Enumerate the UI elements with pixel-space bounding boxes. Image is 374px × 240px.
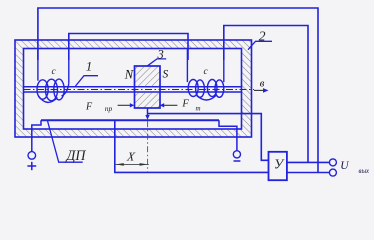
svg-text:в: в [260,79,265,90]
svg-text:3: 3 [157,47,164,61]
svg-text:S: S [163,69,169,81]
svg-text:вых: вых [359,168,370,175]
svg-text:1: 1 [86,58,93,73]
svg-text:пр: пр [105,104,113,113]
svg-text:F: F [181,98,189,109]
svg-text:т: т [196,105,201,113]
svg-text:F: F [85,101,93,112]
svg-text:N: N [124,67,134,81]
svg-text:2: 2 [259,28,266,43]
svg-text:U: U [340,160,349,172]
svg-text:ДП: ДП [65,148,87,164]
